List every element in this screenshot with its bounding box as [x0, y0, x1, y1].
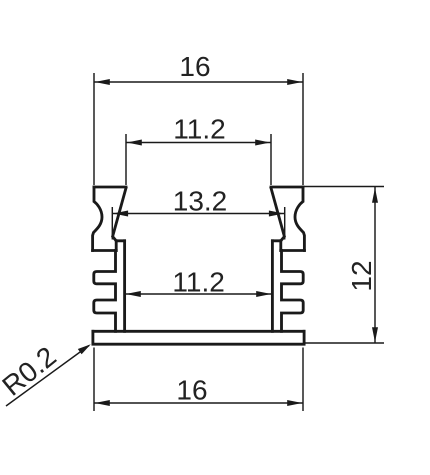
dim 13.2: extension lines — [111, 207, 113, 240]
arrow 16 top right — [287, 79, 302, 85]
right outer wall with S-notch — [295, 187, 304, 251]
arrow 11.2 top left — [127, 140, 142, 146]
dim 16 top: extension lines — [93, 73, 95, 185]
svg-text:12: 12 — [346, 260, 377, 291]
svg-text:11.2: 11.2 — [172, 267, 224, 298]
arrow R0.2 leader — [78, 344, 91, 354]
R0.2 leader line — [6, 346, 89, 407]
right lip slant — [271, 188, 284, 241]
right under-flange step — [281, 249, 305, 252]
dim 11.2 top: dimension line — [126, 142, 271, 144]
svg-text:16: 16 — [179, 51, 210, 82]
channel floor / base top edge — [93, 330, 304, 333]
arrow 13.2 left — [113, 211, 128, 217]
arrow 11.2 inner right — [256, 291, 271, 297]
dim 11.2 top: extension lines — [125, 134, 127, 185]
arrow 11.2 inner left — [126, 291, 141, 297]
right ribbed outer wall — [282, 251, 304, 332]
arrow 12 down — [372, 327, 378, 342]
arrow 11.2 top right — [255, 140, 270, 146]
left under-flange step — [93, 249, 117, 252]
profile top edge left flange — [94, 186, 126, 189]
arrow 12 up — [372, 188, 378, 203]
dim 16 bottom: extension lines — [93, 348, 95, 412]
left lip slant — [113, 188, 126, 241]
left under-lip vertical — [115, 241, 118, 251]
dim 11.2 inner: dimension line — [125, 293, 272, 295]
dim 16 bottom: dimension line — [94, 402, 303, 404]
arrow 16 bottom right — [287, 400, 302, 406]
svg-text:11.2: 11.2 — [173, 114, 225, 145]
right under-lip vertical — [279, 241, 282, 251]
profile top edge right flange — [271, 186, 303, 189]
dim 12: extension lines — [304, 186, 384, 188]
right inner wall — [271, 241, 274, 331]
base plate outline — [93, 331, 304, 344]
left outer wall with S-notch — [93, 187, 102, 251]
arrow 16 top left — [95, 79, 110, 85]
dim 16 top: dimension line — [94, 81, 303, 83]
dim 12: dimension line — [374, 187, 376, 343]
dim 13.2: dimension line — [112, 213, 284, 215]
svg-text:13.2: 13.2 — [173, 186, 228, 217]
arrow 13.2 right — [269, 211, 284, 217]
svg-text:16: 16 — [176, 375, 207, 406]
left inner wall — [123, 241, 126, 331]
left ribbed outer wall — [94, 251, 116, 332]
svg-text:R0.2: R0.2 — [0, 340, 62, 401]
arrow 16 bottom left — [95, 400, 110, 406]
